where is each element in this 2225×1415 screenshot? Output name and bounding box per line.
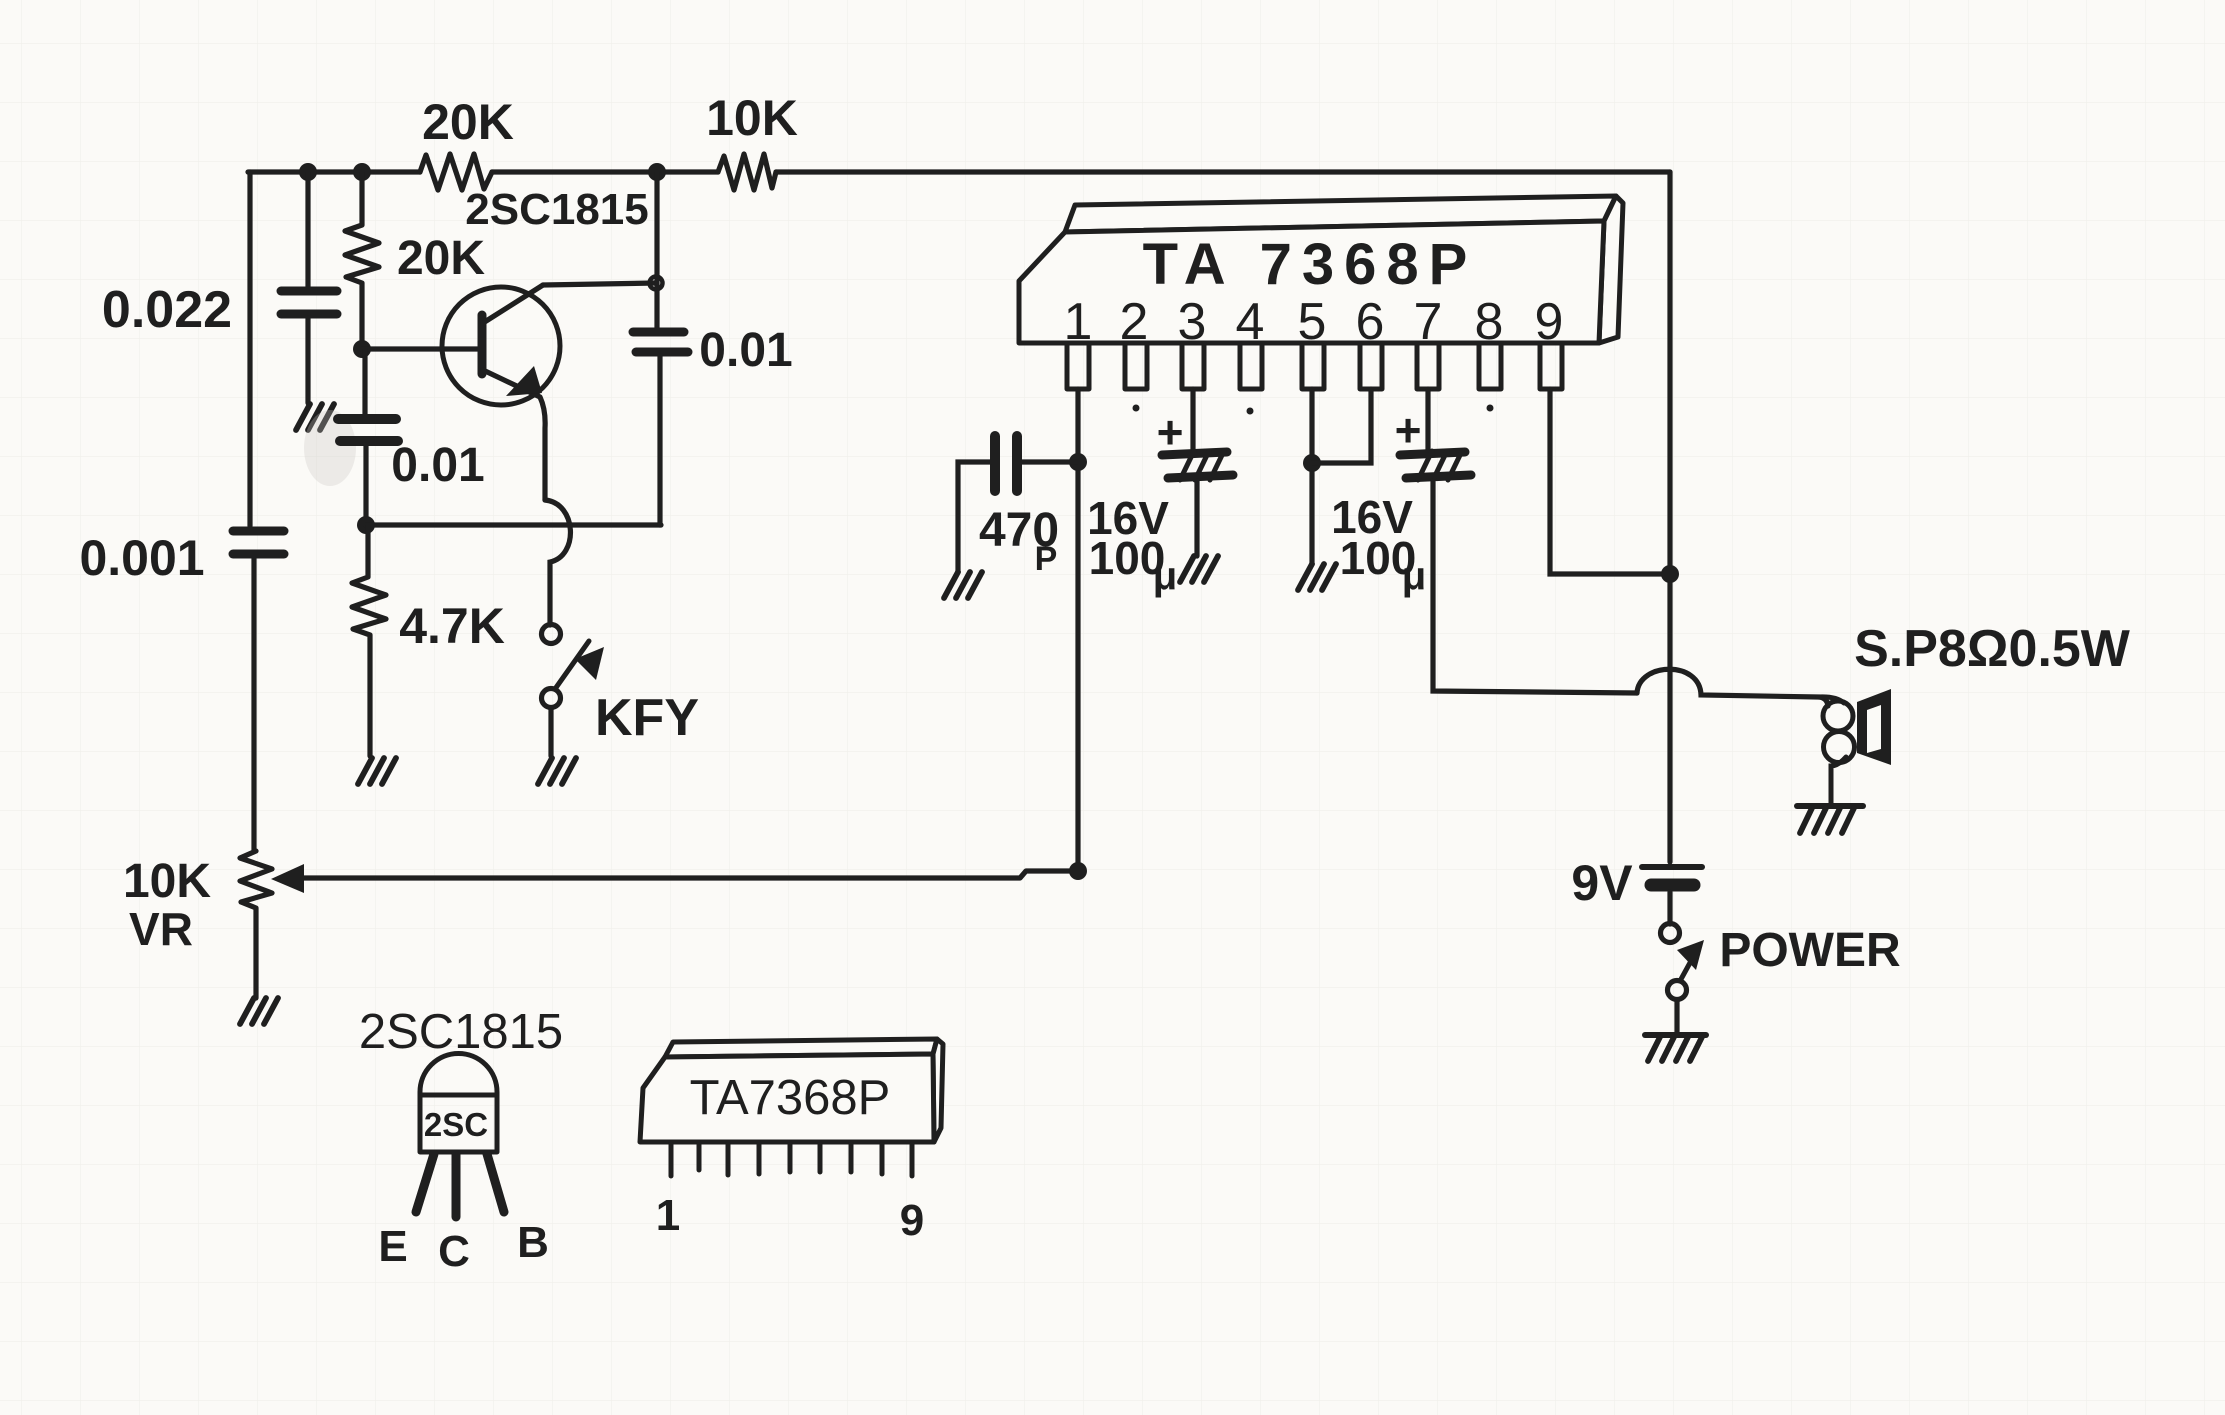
node dot V+: [1661, 565, 1679, 583]
battery 9V: [1642, 867, 1702, 924]
svg-text:0.01: 0.01: [699, 324, 792, 377]
svg-text:2SC1815: 2SC1815: [465, 185, 648, 234]
capacitor 0.01 (base): [338, 349, 398, 525]
package legs E C B: [416, 1154, 504, 1217]
svg-text:KFY: KFY: [595, 689, 699, 747]
wire emitter row: [366, 522, 661, 527]
speaker SP driver: [1857, 689, 1891, 765]
transistor Q1 2SC1815: [442, 285, 560, 500]
node dot emitter-row: [357, 516, 375, 534]
wire pin6: [1312, 389, 1371, 463]
wire pin1 down to input: [1075, 389, 1080, 871]
wire pin9 to V+: [1550, 389, 1662, 574]
capacitor 0.001: [233, 531, 284, 554]
svg-text:10K: 10K: [706, 90, 798, 146]
node dot collector: [650, 277, 663, 290]
svg-text:P: P: [1035, 540, 1058, 578]
power arrowhead: [1677, 940, 1704, 970]
svg-text:C: C: [438, 1227, 470, 1276]
node dot B (20K top): [353, 163, 371, 181]
svg-text:S.P8Ω0.5W: S.P8Ω0.5W: [1854, 620, 2131, 678]
svg-text:+: +: [1157, 406, 1184, 458]
svg-text:0.01: 0.01: [391, 439, 484, 492]
resistor 4.7K: [352, 525, 386, 756]
ground (0.022): [296, 404, 334, 430]
svg-text:B: B: [517, 1218, 549, 1267]
wire pin5 to ground: [1309, 389, 1314, 564]
svg-text:2SC: 2SC: [424, 1106, 488, 1143]
node dot pin5: [1303, 454, 1321, 472]
svg-text:μ: μ: [1402, 554, 1426, 598]
svg-text:10K: 10K: [123, 855, 211, 908]
svg-text:20K: 20K: [422, 94, 514, 150]
ground (4.7K): [358, 758, 396, 784]
emitter arrowhead: [506, 366, 542, 396]
ground (VR): [240, 998, 278, 1024]
resistor 10K horizontal: [718, 154, 776, 190]
VR wiper arrowhead: [271, 864, 304, 893]
node dot A (0.022 top): [299, 163, 317, 181]
svg-text:4.7K: 4.7K: [399, 598, 505, 654]
svg-text:0.022: 0.022: [102, 281, 232, 339]
ground (KFY): [538, 758, 576, 784]
ground (470P): [944, 572, 982, 598]
capacitor 100u 16V (pin7 electrolytic): [1400, 389, 1637, 693]
svg-text:POWER: POWER: [1719, 924, 1900, 977]
svg-text:E: E: [378, 1222, 407, 1271]
ground (speaker): [1797, 806, 1863, 833]
svg-text:20K: 20K: [397, 232, 485, 285]
wire left vertical input: [247, 172, 252, 526]
svg-text:μ: μ: [1153, 554, 1177, 598]
svg-text:0.001: 0.001: [79, 530, 204, 586]
node dot C (collector rail): [648, 163, 666, 181]
svg-text:VR: VR: [129, 903, 193, 955]
speaker SP coil: [1818, 697, 1855, 805]
svg-text:9: 9: [900, 1196, 924, 1245]
capacitor 0.022: [281, 172, 337, 403]
svg-text:TA7368P: TA7368P: [690, 1071, 891, 1125]
wire top rail: [248, 169, 1670, 174]
svg-text:2SC1815: 2SC1815: [359, 1005, 563, 1059]
ground (POWER): [1645, 1035, 1706, 1061]
IC pin numbers 1-9: [1064, 293, 1564, 351]
wire right vertical to battery: [1667, 172, 1672, 862]
smudge near base cap: [304, 410, 356, 486]
IC package TA7368P: [640, 1039, 943, 1142]
capacitor 100u 16V (pin3 electrolytic): [1162, 389, 1233, 556]
svg-text:1: 1: [656, 1191, 680, 1240]
key arrowhead: [575, 647, 604, 680]
wire base: [362, 346, 478, 351]
capacitor 0.01 (collector): [633, 172, 688, 525]
transistor package 2SC1815 (TO-92): [420, 1054, 497, 1153]
resistor 20K horizontal: [420, 154, 492, 190]
wire speaker hop: [1637, 669, 1828, 706]
node dot base: [353, 340, 371, 358]
svg-text:9V: 9V: [1571, 855, 1633, 911]
IC package pins: [671, 1144, 912, 1176]
switch KFY: [542, 625, 590, 757]
svg-text:TA 7368P: TA 7368P: [1143, 232, 1478, 297]
stray dots below pins 2,4,8: [1133, 405, 1140, 412]
wire emitter hop down to key: [545, 500, 570, 625]
svg-text:+: +: [1395, 404, 1422, 456]
IC U1 TA7368P (schematic body): [1019, 196, 1623, 343]
wire collector: [543, 283, 655, 285]
potentiometer 10K VR: [240, 851, 1078, 998]
node dot pin1/470P: [1069, 453, 1087, 471]
node dot pin1/VR wire: [1069, 862, 1087, 880]
capacitor 470P: [958, 436, 1078, 572]
ground (pin5): [1298, 564, 1336, 590]
switch POWER: [1661, 924, 1698, 1035]
wire 0.001 to VR: [251, 558, 256, 851]
IC pins (rectangles): [1067, 343, 1562, 389]
ground (pin3 cap): [1180, 556, 1218, 582]
resistor 20K vertical: [345, 172, 379, 348]
